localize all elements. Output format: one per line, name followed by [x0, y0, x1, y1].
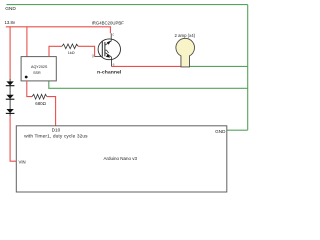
resistor R2 680Ohm: [32, 94, 47, 99]
pin label e: [113, 63, 115, 67]
pin label g: [92, 54, 94, 58]
diode D1: [6, 79, 15, 93]
opto SSR U1 AQY202S: [21, 57, 56, 81]
net label GND (top left): [5, 6, 16, 12]
pin label D10: [52, 128, 61, 133]
wire GND right vertical: [247, 5, 249, 131]
value label n-channel: [97, 69, 121, 75]
value label AQY202S SSR: [31, 65, 48, 75]
svg-text:AQY202S: AQY202S: [31, 65, 48, 69]
svg-text:g: g: [92, 54, 94, 58]
wire 13.8v rail to SSR pin 1: [26, 27, 28, 57]
net label 13.8v: [5, 20, 16, 25]
Arduino Nano U2: [16, 126, 227, 192]
wire 13.8v rail to collector: [6, 27, 111, 34]
svg-text:n-channel: n-channel: [97, 69, 121, 75]
diode D3: [6, 106, 15, 116]
value label 680Ohm: [35, 101, 46, 106]
wire SSR pin 2 to GND: [49, 81, 248, 88]
svg-text:c: c: [112, 33, 114, 37]
wire diode chain to VIN: [10, 116, 16, 161]
part label Arduino Nano v3: [104, 156, 138, 161]
svg-text:Arduino Nano v3: Arduino Nano v3: [104, 156, 138, 161]
lamp LA1 light bulb: [176, 38, 195, 67]
wire SSR pin 4 to resistor R1: [49, 46, 62, 56]
resistor R1 1kOhm: [62, 44, 78, 49]
pin label VIN: [19, 160, 26, 165]
svg-text:GND: GND: [215, 129, 226, 134]
wire SSR pin 3 to resistor R2: [27, 81, 32, 97]
transistor Q1 IGBT: [98, 33, 120, 66]
svg-text:680Ω: 680Ω: [35, 101, 46, 106]
svg-text:VIN: VIN: [19, 160, 26, 165]
svg-text:13.8v: 13.8v: [5, 20, 16, 25]
svg-text:2 amp (x4): 2 amp (x4): [175, 33, 196, 38]
diode D2: [6, 93, 15, 107]
wire lamp to GND: [189, 65, 247, 67]
wire resistor R1 to gate: [78, 46, 94, 56]
wire GND top rail: [6, 4, 247, 6]
wire resistor R2 to D10: [47, 97, 56, 126]
note label with Timer1, duty cycle 32us: [24, 133, 88, 139]
wire 13.8v rail to diode chain: [9, 27, 11, 80]
pin label c: [112, 33, 114, 37]
svg-text:IRG4BC20UPBF: IRG4BC20UPBF: [92, 21, 125, 26]
svg-text:D10: D10: [52, 128, 61, 133]
pin label GND (Arduino): [215, 129, 226, 134]
wire GND to Arduino GND pin: [227, 129, 248, 131]
svg-text:GND: GND: [5, 6, 16, 12]
gate lead: [95, 56, 103, 58]
wire emitter to lamp: [111, 65, 181, 67]
value label 2 amp (x4): [175, 33, 196, 38]
part label IRG4BC20UPBF: [92, 21, 125, 26]
svg-text:SSR: SSR: [33, 71, 41, 75]
svg-text:with Timer1, duty cycle 32us: with Timer1, duty cycle 32us: [24, 133, 88, 139]
svg-text:1kΩ: 1kΩ: [68, 51, 75, 55]
value label 1kOhm: [68, 51, 75, 55]
